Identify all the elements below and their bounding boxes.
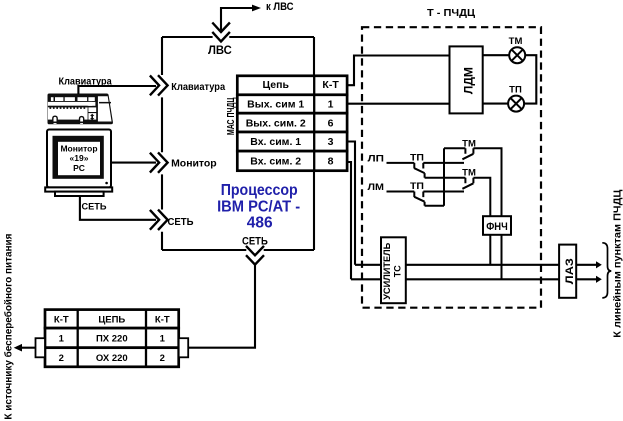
svg-text:ТП: ТП bbox=[410, 152, 424, 163]
wire ФНЧ to TC bus 2 bbox=[501, 235, 503, 279]
svg-text:МАС ПЧДЦ: МАС ПЧДЦ bbox=[226, 97, 237, 135]
svg-text:К-Т: К-Т bbox=[54, 314, 69, 325]
svg-text:Вх. сим. 1: Вх. сим. 1 bbox=[250, 136, 301, 148]
svg-text:«19»: «19» bbox=[70, 153, 89, 163]
wire ЛМ input bbox=[387, 191, 415, 193]
svg-text:К линейным пунктам ПЧДЦ: К линейным пунктам ПЧДЦ bbox=[613, 189, 623, 338]
connector chevron ЛВС on U1 top edge bbox=[212, 23, 230, 42]
svg-text:К-Т: К-Т bbox=[322, 79, 339, 91]
dashed enclosure Т-ПЧДЦ bbox=[362, 27, 541, 308]
wire ФНЧ to TC bus 1 bbox=[489, 235, 491, 265]
svg-text:486: 486 bbox=[247, 214, 273, 231]
svg-text:ЛП: ЛП bbox=[368, 153, 385, 164]
wire TC bus 2 (lower) to ЛАЗ and arrow bbox=[351, 276, 602, 283]
wire К-Т 3 down to TC bus 1 bbox=[347, 142, 355, 265]
svg-text:Процессор: Процессор bbox=[221, 182, 298, 199]
wire riser (vertical junction line) bbox=[443, 148, 445, 206]
wire К-Т 8 down to TC bus 2 bbox=[347, 162, 351, 279]
wire ЛП input bbox=[387, 162, 415, 164]
contact ТМ-2 bbox=[462, 178, 473, 189]
svg-text:ЛАЗ: ЛАЗ bbox=[564, 258, 576, 284]
label Цепь / К-Т header bbox=[262, 79, 339, 91]
wire ЛДМ to lamp ТМ and down to lamp ТП bbox=[483, 55, 537, 103]
label Вых. сим 1 / 1 bbox=[247, 99, 334, 111]
svg-text:3: 3 bbox=[328, 136, 334, 148]
svg-text:Вх. сим. 2: Вх. сим. 2 bbox=[250, 156, 301, 168]
svg-text:ЛВС: ЛВС bbox=[208, 43, 232, 57]
wire TC bus 1 (upper) to ЛАЗ and arrow bbox=[355, 261, 602, 268]
svg-text:1: 1 bbox=[328, 99, 334, 111]
svg-text:ТП: ТП bbox=[509, 85, 522, 96]
wire ТМ-2 output to ФНЧ bbox=[473, 178, 490, 217]
connector stub left of power table bbox=[36, 338, 46, 357]
power connector table ПХ/ОХ 220 bbox=[45, 310, 179, 367]
label Вх. сим. 2 / 8 bbox=[250, 156, 333, 168]
svg-text:СЕТЬ: СЕТЬ bbox=[242, 236, 268, 248]
svg-text:ТМ: ТМ bbox=[509, 36, 523, 47]
wire СЕТЬ bottom chevron down-left to power table right stub bbox=[188, 265, 255, 348]
svg-text:к ЛВС: к ЛВС bbox=[266, 1, 294, 13]
contact ТМ-1 bbox=[444, 148, 473, 159]
wire monitor video to Монитор chevron bbox=[111, 162, 156, 164]
svg-text:1: 1 bbox=[160, 334, 166, 345]
monitor icon bbox=[45, 130, 112, 197]
svg-text:ФНЧ: ФНЧ bbox=[486, 221, 508, 233]
contact ТП-1 (changeover on ЛП) bbox=[414, 163, 424, 178]
svg-text:Вых. сим. 2: Вых. сим. 2 bbox=[246, 117, 306, 129]
block ЛАЗ bbox=[559, 245, 576, 298]
svg-text:К-Т: К-Т bbox=[155, 314, 170, 325]
label 1 ПХ 220 1 bbox=[59, 334, 166, 345]
connector chevron СЕТЬ on U1 left edge bbox=[150, 210, 168, 230]
label 2 ОХ 220 2 bbox=[59, 353, 165, 364]
connector chevron Монитор on U1 left edge bbox=[150, 152, 168, 172]
svg-text:Т - ПЧДЦ: Т - ПЧДЦ bbox=[427, 7, 475, 19]
svg-text:2: 2 bbox=[59, 353, 64, 364]
wire monitor power to СЕТЬ chevron bbox=[80, 196, 156, 220]
wire to LAN: up from ЛВС chevron then right with arrow bbox=[221, 5, 261, 30]
svg-text:ЦЕПЬ: ЦЕПЬ bbox=[98, 314, 125, 325]
svg-text:8: 8 bbox=[328, 156, 334, 168]
block ФНЧ bbox=[483, 216, 511, 235]
wire keyboard to Клавиатура chevron bbox=[78, 86, 156, 94]
brace before К линейным пунктам ПЧДЦ bbox=[602, 243, 611, 298]
svg-text:Вых. сим 1: Вых. сим 1 bbox=[247, 99, 304, 111]
wire ТМ-1 output to ФНЧ bbox=[473, 148, 501, 216]
wire ТП-2 NO to ТМ-2 common bbox=[423, 191, 464, 193]
svg-text:2: 2 bbox=[160, 353, 165, 364]
block ЛДМ bbox=[450, 46, 483, 113]
svg-text:СЕТЬ: СЕТЬ bbox=[82, 202, 107, 213]
label Вх. сим. 1 / 3 bbox=[250, 136, 333, 148]
wire ТП-2 NC to riser bbox=[425, 205, 444, 207]
label К-Т ЦЕПЬ К-Т header bbox=[54, 314, 170, 325]
contact ТП-2 (changeover on ЛМ) bbox=[414, 192, 424, 206]
svg-text:ТС: ТС bbox=[393, 265, 403, 277]
block УСИЛИТЕЛЬ ТС bbox=[381, 237, 406, 303]
MAC ПЧДЦ connector table on U1 right edge bbox=[237, 76, 347, 171]
svg-text:СЕТЬ: СЕТЬ bbox=[168, 217, 194, 228]
svg-text:К источнику бесперебойного пит: К источнику бесперебойного питания bbox=[3, 233, 15, 419]
connector chevron Клавиатура on U1 left edge bbox=[150, 75, 168, 95]
svg-text:1: 1 bbox=[59, 334, 65, 345]
wire К-Т 1 to ЛДМ bbox=[347, 103, 449, 105]
svg-text:6: 6 bbox=[328, 117, 334, 129]
svg-text:УСИЛИТЕЛЬ: УСИЛИТЕЛЬ bbox=[382, 242, 392, 300]
svg-text:Монитор: Монитор bbox=[60, 143, 97, 153]
label Монитор «19» PC (on screen) bbox=[60, 143, 97, 173]
lamp ТП bbox=[508, 96, 524, 112]
lamp ТМ bbox=[509, 47, 525, 63]
label Вых. сим. 2 / 6 bbox=[246, 117, 334, 129]
svg-text:ПХ 220: ПХ 220 bbox=[96, 334, 128, 345]
wire К-Т header to ЛДМ (up and right) bbox=[347, 56, 449, 86]
svg-text:ОХ 220: ОХ 220 bbox=[96, 353, 128, 364]
processor box U1 IBM PC/AT-486 outline bbox=[162, 37, 314, 250]
label Процессор IBM PC/AT - 486 (blue) bbox=[217, 182, 300, 232]
connector chevron СЕТЬ on U1 bottom edge bbox=[246, 246, 264, 265]
svg-text:Монитор: Монитор bbox=[171, 158, 217, 169]
svg-text:Цепь: Цепь bbox=[262, 79, 289, 91]
svg-text:Клавиатура: Клавиатура bbox=[171, 82, 225, 93]
wire to UPS source with arrow bbox=[14, 344, 36, 352]
wire ТП-1 NO to ТМ-1 common bbox=[423, 162, 464, 164]
keyboard icon bbox=[48, 94, 113, 125]
connector stub right of power table bbox=[179, 338, 189, 357]
svg-text:PC: PC bbox=[73, 163, 85, 173]
svg-text:IBM PC/AT -: IBM PC/AT - bbox=[217, 199, 300, 216]
svg-text:ЛМ: ЛМ bbox=[368, 182, 385, 193]
wire ТП-1 NC / ТМ-2 fixed line bbox=[425, 178, 466, 184]
svg-text:ЛДМ: ЛДМ bbox=[464, 67, 476, 94]
svg-text:ТП: ТП bbox=[410, 181, 424, 192]
